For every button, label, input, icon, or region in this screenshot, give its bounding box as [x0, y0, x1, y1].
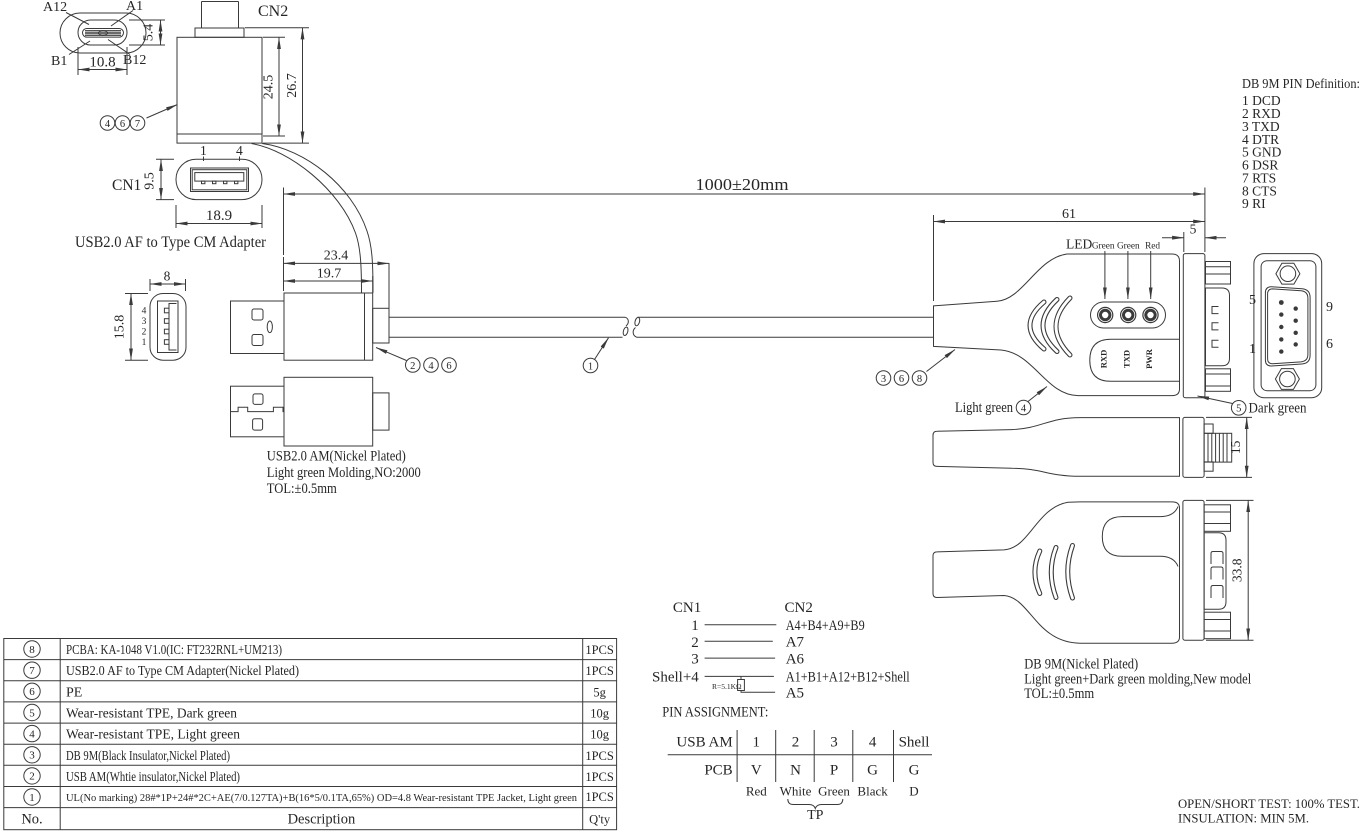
svg-text:2: 2 [29, 771, 35, 783]
svg-text:Red: Red [1145, 242, 1160, 252]
svg-text:R=5.1KΩ: R=5.1KΩ [712, 682, 742, 691]
svg-text:1000±20mm: 1000±20mm [696, 175, 789, 194]
svg-text:G: G [909, 763, 920, 779]
svg-text:3: 3 [691, 652, 699, 668]
svg-text:3: 3 [142, 317, 147, 327]
svg-text:A1+B1+A12+B12+Shell: A1+B1+A12+B12+Shell [786, 670, 910, 686]
svg-text:5.4: 5.4 [142, 24, 157, 42]
svg-text:A5: A5 [786, 686, 804, 702]
svg-text:1: 1 [691, 618, 699, 634]
svg-text:1PCS: 1PCS [585, 643, 614, 657]
svg-text:8: 8 [917, 374, 922, 385]
svg-text:Green: Green [818, 784, 850, 799]
svg-text:OPEN/SHORT TEST: 100% TEST.: OPEN/SHORT TEST: 100% TEST. [1178, 796, 1360, 811]
svg-text:1: 1 [142, 338, 147, 348]
svg-text:USB2.0 AM(Nickel Plated): USB2.0 AM(Nickel Plated) [267, 449, 406, 465]
svg-text:Light green Molding,NO:2000: Light green Molding,NO:2000 [267, 465, 421, 481]
svg-text:9: 9 [1326, 300, 1333, 315]
svg-text:10g: 10g [590, 728, 610, 742]
svg-text:Green: Green [1117, 242, 1140, 252]
svg-text:1PCS: 1PCS [585, 770, 614, 784]
svg-text:Q'ty: Q'ty [589, 813, 611, 827]
svg-text:6: 6 [1326, 337, 1333, 352]
svg-text:4: 4 [105, 119, 111, 130]
svg-text:USB2.0 AF to Type CM Adapter(N: USB2.0 AF to Type CM Adapter(Nickel Plat… [66, 664, 299, 679]
svg-text:1: 1 [29, 792, 35, 804]
svg-text:8: 8 [164, 269, 171, 284]
svg-text:Green: Green [1092, 242, 1115, 252]
svg-text:A12: A12 [43, 0, 67, 15]
svg-text:6: 6 [446, 361, 451, 372]
svg-text:Description: Description [288, 812, 356, 828]
svg-text:3: 3 [29, 750, 35, 762]
svg-text:TP: TP [807, 808, 824, 823]
svg-text:TOL:±0.5mm: TOL:±0.5mm [267, 481, 337, 497]
svg-text:D: D [909, 784, 918, 799]
svg-text:7: 7 [135, 119, 140, 130]
svg-text:INSULATION: MIN 5M.: INSULATION: MIN 5M. [1178, 811, 1309, 826]
svg-text:10.8: 10.8 [89, 55, 115, 71]
svg-text:Wear-resistant TPE, Dark green: Wear-resistant TPE, Dark green [66, 707, 237, 722]
svg-text:TXD: TXD [1122, 350, 1132, 368]
svg-text:5: 5 [1236, 404, 1241, 415]
svg-text:V: V [751, 763, 762, 779]
svg-text:N: N [790, 763, 801, 779]
svg-text:4: 4 [142, 307, 147, 317]
svg-text:A7: A7 [786, 635, 805, 651]
svg-text:5: 5 [29, 707, 35, 719]
svg-text:G: G [867, 763, 878, 779]
svg-text:61: 61 [1062, 207, 1076, 222]
svg-text:4: 4 [236, 143, 243, 158]
svg-text:DB 9M PIN Definition:: DB 9M PIN Definition: [1242, 77, 1360, 92]
svg-text:2: 2 [142, 328, 147, 338]
svg-text:5: 5 [1190, 222, 1197, 237]
svg-text:5g: 5g [593, 685, 606, 699]
svg-text:1: 1 [753, 735, 761, 751]
svg-text:White: White [780, 784, 812, 799]
svg-text:3: 3 [830, 735, 838, 751]
svg-text:PCB: PCB [704, 763, 732, 779]
svg-text:Black: Black [857, 784, 888, 799]
svg-text:1: 1 [200, 143, 207, 158]
svg-text:CN2: CN2 [785, 600, 813, 616]
svg-text:4: 4 [428, 361, 434, 372]
svg-text:B1: B1 [51, 54, 67, 69]
svg-text:A1: A1 [126, 0, 143, 14]
svg-text:Shell+4: Shell+4 [652, 670, 699, 686]
svg-text:6: 6 [29, 686, 35, 698]
svg-text:8: 8 [29, 644, 35, 656]
svg-text:Red: Red [746, 784, 767, 799]
svg-text:10g: 10g [590, 707, 610, 721]
svg-text:19.7: 19.7 [317, 267, 342, 282]
svg-text:PWR: PWR [1144, 348, 1154, 369]
svg-text:4: 4 [1021, 403, 1027, 414]
svg-text:24.5: 24.5 [262, 75, 277, 100]
svg-text:No.: No. [21, 812, 42, 828]
svg-text:TOL:±0.5mm: TOL:±0.5mm [1024, 686, 1094, 702]
svg-text:Wear-resistant TPE, Light gree: Wear-resistant TPE, Light green [66, 728, 240, 743]
svg-text:9.5: 9.5 [143, 172, 158, 190]
svg-text:USB AM: USB AM [676, 735, 732, 751]
svg-text:USB2.0 AF to Type CM Adapter: USB2.0 AF to Type CM Adapter [75, 234, 267, 251]
svg-text:1PCS: 1PCS [585, 749, 614, 763]
svg-text:Dark green: Dark green [1249, 401, 1307, 417]
svg-text:5: 5 [1249, 293, 1256, 308]
svg-text:4: 4 [869, 735, 877, 751]
svg-text:6: 6 [899, 374, 904, 385]
svg-text:9 RI: 9 RI [1242, 196, 1266, 211]
svg-text:2: 2 [410, 361, 415, 372]
svg-text:2: 2 [792, 735, 800, 751]
svg-text:CN1: CN1 [112, 177, 141, 194]
svg-text:LED: LED [1066, 237, 1092, 252]
svg-text:Shell: Shell [899, 735, 930, 751]
svg-text:CN2: CN2 [258, 3, 288, 20]
svg-text:15: 15 [1228, 440, 1243, 454]
svg-text:1PCS: 1PCS [585, 664, 614, 678]
svg-text:1: 1 [588, 361, 593, 372]
svg-text:P: P [830, 763, 838, 779]
svg-text:4: 4 [29, 728, 35, 740]
svg-text:6: 6 [120, 119, 125, 130]
svg-text:23.4: 23.4 [324, 249, 349, 264]
svg-text:33.8: 33.8 [1229, 558, 1244, 582]
svg-text:CN1: CN1 [673, 600, 701, 616]
svg-text:PIN ASSIGNMENT:: PIN ASSIGNMENT: [662, 705, 768, 721]
svg-text:USB AM(Whtie insulator,Nickel: USB AM(Whtie insulator,Nickel Plated) [66, 770, 240, 785]
svg-text:1: 1 [1249, 342, 1256, 357]
svg-text:PE: PE [66, 685, 82, 700]
svg-text:3: 3 [881, 374, 886, 385]
svg-text:26.7: 26.7 [285, 73, 300, 98]
svg-text:DB 9M(Black Insulator,Nickel P: DB 9M(Black Insulator,Nickel Plated) [66, 749, 230, 764]
svg-text:RXD: RXD [1099, 350, 1109, 368]
svg-text:Light green: Light green [955, 400, 1013, 416]
svg-text:18.9: 18.9 [206, 208, 232, 224]
svg-text:15.8: 15.8 [113, 315, 128, 340]
svg-text:DB 9M(Nickel Plated): DB 9M(Nickel Plated) [1024, 657, 1138, 673]
svg-text:1PCS: 1PCS [585, 790, 614, 804]
svg-text:PCBA: KA-1048 V1.0(IC: FT232RN: PCBA: KA-1048 V1.0(IC: FT232RNL+UM213) [66, 643, 282, 658]
svg-text:A6: A6 [786, 652, 805, 668]
svg-text:A4+B4+A9+B9: A4+B4+A9+B9 [786, 618, 865, 634]
svg-text:7: 7 [29, 665, 35, 677]
svg-text:UL(No marking) 28#*1P+24#*2C+A: UL(No marking) 28#*1P+24#*2C+AE(7/0.127T… [66, 792, 577, 804]
svg-text:2: 2 [691, 635, 699, 651]
